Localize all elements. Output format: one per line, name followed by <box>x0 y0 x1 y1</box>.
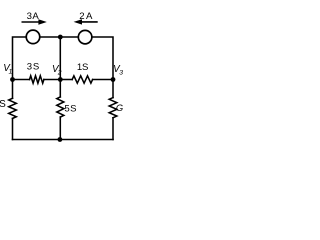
svg-text:1: 1 <box>9 69 13 76</box>
node V1 junction dot <box>10 77 15 82</box>
wire: left resistor to bottom-left corner <box>12 118 14 139</box>
arrow for I1 (points right) <box>22 21 40 23</box>
resistor 5 S (middle vertical zigzag) <box>57 97 64 117</box>
wire: top-left corner (V1 riser to I1) <box>13 37 26 80</box>
svg-text:3: 3 <box>27 61 32 72</box>
node: top junction dot <box>58 35 63 40</box>
wire: 1S resistor to V3 <box>93 79 113 81</box>
wire: top-right corner (I2 to V3 riser) <box>92 37 113 80</box>
svg-text:2: 2 <box>79 11 84 22</box>
svg-text:3: 3 <box>119 69 123 76</box>
wire: 3S resistor to V2 <box>44 79 60 81</box>
wire: V1 to 3S resistor <box>13 79 30 81</box>
node V3 junction dot <box>111 77 116 82</box>
svg-text:3: 3 <box>27 11 32 22</box>
wire: 5S resistor to bottom junction <box>59 117 61 139</box>
current source I2 (2 A) circle <box>78 30 92 44</box>
svg-text:5: 5 <box>64 104 69 115</box>
wire: V2 to 1S resistor <box>60 79 72 81</box>
wire: top middle (I1 to I2 through top junction) <box>40 36 78 38</box>
svg-text:A: A <box>86 11 93 22</box>
svg-text:S: S <box>82 62 88 73</box>
svg-text:G: G <box>116 102 123 113</box>
resistor 1 S (horizontal zigzag) <box>72 76 92 83</box>
svg-text:2: 2 <box>57 69 62 76</box>
wire: V3 down to G resistor <box>112 80 114 98</box>
svg-text:A: A <box>32 11 39 22</box>
wire: middle riser (top junction down to node V2) <box>59 37 61 80</box>
svg-text:S: S <box>33 61 39 72</box>
svg-text:S: S <box>70 104 76 115</box>
resistor 3 S (horizontal zigzag) <box>30 76 44 83</box>
wire: V1 down to left resistor <box>12 80 14 99</box>
node: bottom junction dot <box>58 137 63 142</box>
arrow for I2 (points left) <box>82 21 98 23</box>
resistor G (right vertical zigzag) <box>109 98 117 118</box>
resistor S (left vertical zigzag, label cut off at edge) <box>9 98 17 118</box>
node V2 junction dot <box>58 77 63 82</box>
svg-text:S: S <box>0 99 6 110</box>
wire: V2 down to 5S resistor <box>59 80 61 97</box>
wire: bottom rail <box>13 139 114 141</box>
wire: G resistor to bottom-right corner <box>112 118 114 140</box>
current source I1 (3 A) circle <box>26 30 40 44</box>
